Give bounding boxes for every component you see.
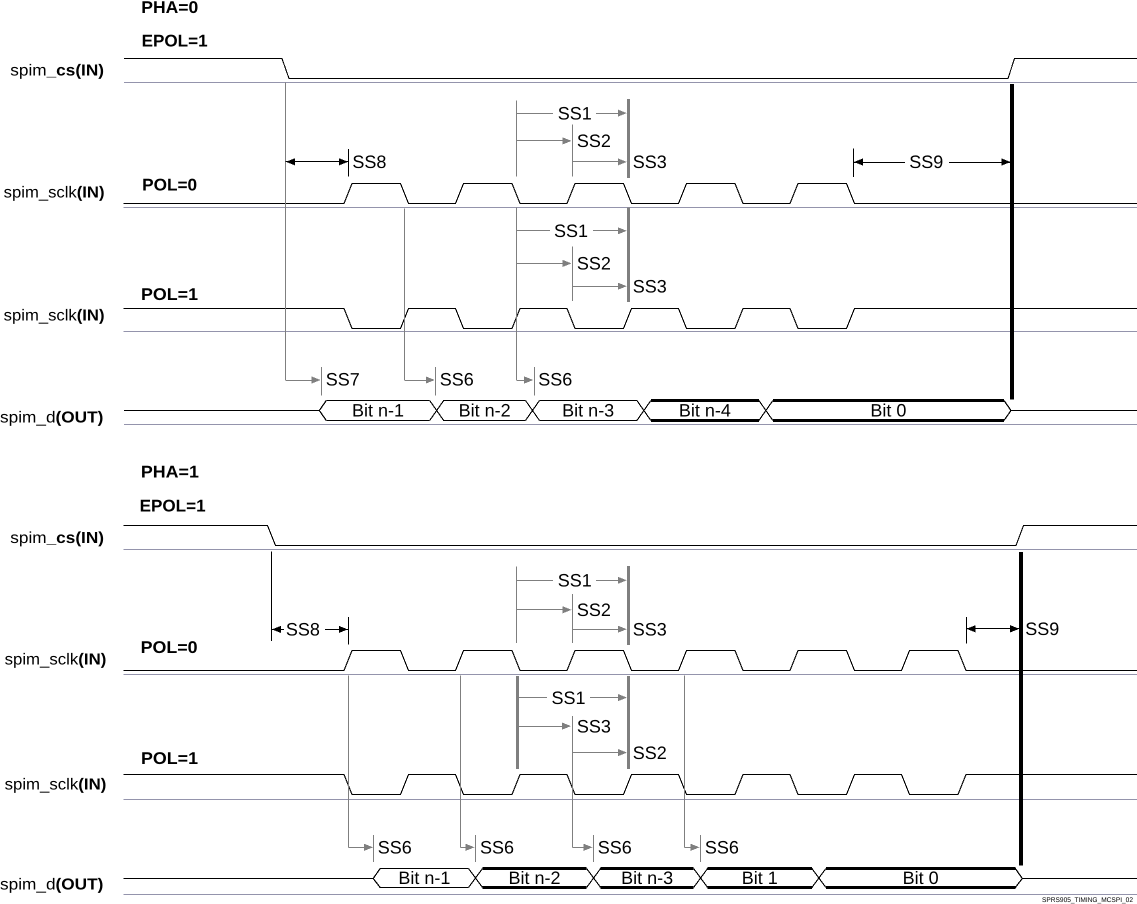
svg-text:spim_sclk(IN): spim_sclk(IN) [4,308,105,325]
dimension SS2 arrow (bottom upper) [516,609,564,611]
svg-text:SS2: SS2 [577,131,611,151]
dimension SS6 elbow arrow #1 (bottom) [348,847,366,849]
dimension SS1 arrow (bottom lower) [517,697,547,699]
node reference drop line SS6 #1 (bottom, x=348.4) [348,675,350,847]
dimension SS1 arrow (top upper) [516,113,553,115]
dimension SS2 arrow (bottom lower) [572,752,620,754]
svg-text:Bit n-4: Bit n-4 [679,400,731,420]
wire spim_sclk POL=1 waveform (top) [124,309,1137,329]
svg-text:spim_sclk(IN): spim_sclk(IN) [5,651,107,668]
emphasis reference line sclk fall 3 (bottom upper, x=628.3) [627,566,630,645]
svg-text:EPOL=1: EPOL=1 [142,32,208,51]
bus segment box Bit 0 (top) [773,399,1004,402]
dimension SS3 arrow (bottom lower) [517,726,563,728]
svg-text:spim_d(OUT): spim_d(OUT) [0,410,103,427]
svg-text:SS3: SS3 [633,152,667,172]
bus crossover X (bottom) [694,869,708,888]
wire spim_cs waveform (bottom) [124,526,1137,546]
node reference line sclk fall 1 (top, x=405) [404,209,406,381]
svg-text:spim_cs(IN): spim_cs(IN) [10,62,104,79]
dimension SS9 arrow (top) [854,162,905,164]
svg-text:SS9: SS9 [1025,619,1059,639]
bus segment box Bit n-3 (bottom) [601,867,694,870]
svg-text:spim_cs(IN): spim_cs(IN) [10,530,104,547]
node tick at data change #1 (bottom, x=373.9) [373,835,375,862]
svg-text:Bit 0: Bit 0 [903,868,939,888]
bus crossover X (top) [759,401,773,421]
svg-text:SS2: SS2 [577,254,611,274]
bus segment box Bit n-4 (top) [651,399,759,402]
svg-text:SS6: SS6 [705,837,739,857]
dimension SS8 arrow (bottom) [272,629,284,631]
svg-text:Bit n-3: Bit n-3 [621,868,673,888]
wire (bus idle line left) (bottom) [124,878,374,880]
bus crossover X (top) [430,401,444,421]
svg-text:Bit 1: Bit 1 [742,868,778,888]
bus crossover X (top) [526,401,540,421]
emphasis line (bottom final cs edge) [1019,552,1023,866]
emphasis reference line sclk fall 3 (top lower, x=628.3) [627,207,630,302]
svg-text:SS2: SS2 [633,743,667,763]
node reference line sclk fall 3 (bottom lower, x=571.5) [572,716,574,847]
emphasis line (top final cs edge) [1010,84,1014,399]
svg-text:SS1: SS1 [558,103,592,123]
svg-text:SS6: SS6 [480,837,514,857]
emphasis reference line sclk rise 3 (bottom lower, x=628.5) [627,676,630,769]
dimension SS3 arrow (top lower) [573,286,619,288]
svg-text:Bit n-3: Bit n-3 [562,400,614,420]
dimension SS1 arrow (top lower) [516,230,550,232]
svg-text:SS8: SS8 [286,620,320,640]
dimension SS2 arrow (top upper) [516,140,564,142]
svg-text:Bit n-2: Bit n-2 [509,868,561,888]
bus crossover X (top) [637,401,651,421]
node reference line sclk fall 2 (top, x=516.4 upper) [516,101,518,177]
bus segment box Bit n-1 (top) [326,400,429,402]
node reference line at cs fall (bottom SS8, x=271.7) [271,552,273,641]
node reference line sclk rise 3 (top upper, x=572.7) [572,125,574,177]
bus open chevron (top) [319,401,326,421]
wire (bus idle line left) (top) [124,410,319,412]
svg-text:PHA=0: PHA=0 [141,0,198,17]
svg-text:SS3: SS3 [577,716,611,736]
baseline rail (top POL=0 row) [124,207,1137,209]
node tick at data change #2 (bottom, x=475.5) [475,835,477,862]
dimension SS7 elbow arrow (top) [286,380,314,382]
dimension SS3 arrow (bottom upper) [573,629,619,631]
svg-text:EPOL=1: EPOL=1 [140,497,206,516]
dimension SS6 elbow arrow #3 (bottom) [572,847,586,849]
svg-text:SS3: SS3 [633,620,667,640]
dimension SS6 elbow arrow 2 (top) [516,380,527,382]
dimension SS6 elbow arrow #2 (bottom) [461,847,469,849]
node tick at data start (top SS7, x=321.5) [321,367,323,396]
baseline rail (bottom spim_d row) [124,894,1137,896]
svg-text:SS6: SS6 [378,837,412,857]
bus crossover X (bottom) [587,869,601,888]
node reference tick first sclk rise (top SS8, x=348.5) [348,149,350,176]
node tick at data change #4 (bottom, x=700.4) [700,835,702,862]
svg-text:SS6: SS6 [440,370,474,390]
svg-text:spim_sclk(IN): spim_sclk(IN) [5,777,107,794]
dimension SS3 arrow (top upper) [573,161,619,163]
svg-text:POL=1: POL=1 [141,285,198,304]
svg-text:SS1: SS1 [554,221,588,241]
svg-text:SS9: SS9 [909,152,943,172]
dimension SS6 elbow arrow 1 (top) [405,380,428,382]
bus segment box Bit n-3 (top) [540,400,637,402]
wire spim_sclk POL=0 waveform (bottom) [124,651,1137,671]
svg-text:SS1: SS1 [552,688,586,708]
svg-text:SS2: SS2 [577,600,611,620]
svg-text:PHA=1: PHA=1 [141,462,199,481]
svg-text:SS3: SS3 [633,277,667,297]
wire (bus idle line right) (bottom) [1022,878,1137,880]
node reference line sclk fall 2 (bottom upper, x=516.4) [516,567,518,644]
wire spim_sclk POL=0 waveform (top) [124,184,1137,204]
bus segment box Bit n-1 (bottom) [380,868,468,870]
bus segment box Bit n-2 (top) [444,400,526,402]
svg-text:Bit n-1: Bit n-1 [352,400,404,420]
svg-text:Bit 0: Bit 0 [870,400,906,420]
node reference line sclk rise 3 (bottom upper, x=572.7) [572,594,574,643]
svg-text:spim_d(OUT): spim_d(OUT) [0,877,103,894]
dimension SS8 arrow (top) [286,161,349,163]
dimension SS2 arrow (top lower) [516,263,564,265]
svg-text:POL=1: POL=1 [141,749,198,768]
node tick at data change 2 (top, x=534.2) [534,367,536,396]
wire spim_sclk POL=1 waveform (bottom) [124,775,1137,795]
node reference line sclk rise 3 (top lower, x=572.7) [572,247,574,302]
emphasis reference line sclk fall 3 (top upper, x=628.3) [627,99,630,178]
bus close chevron (top) [1004,401,1011,421]
svg-text:spim_sclk(IN): spim_sclk(IN) [4,184,105,201]
bus open chevron (bottom) [373,869,380,888]
baseline rail (bottom POL=0 row) [124,674,1137,676]
node reference tick sclk fall 6 (bottom SS9, x=966) [966,617,968,644]
svg-text:POL=0: POL=0 [142,176,197,195]
svg-text:SPRS905_TIMING_MCSPI_02: SPRS905_TIMING_MCSPI_02 [1042,897,1133,904]
svg-text:SS6: SS6 [598,837,632,857]
bus close chevron (bottom) [1015,869,1022,888]
node tick at data change #3 (bottom, x=593.6) [593,835,595,862]
bus segment box Bit n-2 (bottom) [483,867,587,870]
node reference line sclk fall 2 (top, x=516.4 lower) [516,207,518,380]
node reference drop line SS6 #4 (bottom, x=684.3) [684,675,686,847]
node reference tick sclk fall 5 (top SS9, x=853.7) [853,148,855,177]
bus segment box Bit 1 (bottom) [708,867,812,870]
svg-text:Bit n-2: Bit n-2 [459,400,511,420]
bus crossover X (bottom) [812,869,826,888]
dimension SS6 elbow arrow #4 (bottom) [684,847,693,849]
dimension SS9 arrow (bottom) [966,628,1019,630]
bus segment box Bit 0 (bottom) [826,867,1015,870]
svg-text:POL=0: POL=0 [141,638,198,657]
svg-text:SS6: SS6 [538,370,572,390]
emphasis reference line sclk rise 2 (bottom lower, x=517) [516,676,519,769]
baseline rail (top cs row) [124,82,1137,84]
wire spim_cs waveform (top) [124,59,1137,79]
svg-text:SS7: SS7 [326,370,360,390]
baseline rail (top POL=1 row) [124,331,1137,333]
dimension SS1 arrow (bottom upper) [516,580,553,582]
node reference line at cs fall (top, x=285.6) [285,82,287,380]
baseline rail (top spim_d row) [124,424,1137,426]
bus crossover X (bottom) [469,869,483,888]
svg-text:SS1: SS1 [558,571,592,591]
baseline rail (bottom POL=1 row) [124,799,1137,801]
baseline rail (bottom cs row) [124,549,1137,551]
node tick at data change 1 (top, x=435.8) [435,367,437,396]
node reference drop line SS6 #2 (bottom, x=460.5) [460,675,462,847]
svg-text:Bit n-1: Bit n-1 [398,868,450,888]
node reference tick first sclk rise (bottom SS8, x=348.4) [348,617,350,645]
svg-text:SS8: SS8 [352,152,386,172]
wire (bus idle line right) (top) [1011,410,1137,412]
